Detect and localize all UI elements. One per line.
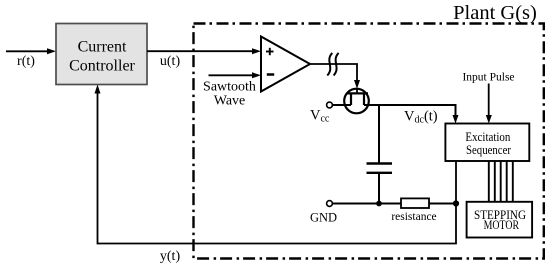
svg-text:Sequencer: Sequencer [466, 143, 512, 157]
wire input pulse arrow [488, 84, 490, 117]
svg-text:r(t): r(t) [17, 54, 35, 69]
wire comparator output [310, 64, 357, 81]
block Stepping Motor [467, 202, 532, 238]
svg-text:Sawtooth: Sawtooth [203, 80, 256, 95]
resistor R1 [401, 198, 429, 208]
wire u(t) to comparator [147, 50, 254, 52]
transistor Q1 (MOSFET in circle) [344, 89, 369, 114]
wire GND to resistor [333, 203, 402, 205]
block Current Controller [56, 24, 147, 85]
wire r(t) input [6, 50, 49, 52]
svg-text:Controller: Controller [69, 58, 135, 75]
wire sequencer bus line 1 [488, 161, 490, 202]
svg-text:Vcc: Vcc [310, 108, 330, 125]
wire sequencer bus line 3 [500, 161, 502, 202]
svg-text:Plant G(s): Plant G(s) [453, 2, 537, 24]
wire sequencer bus line 5 [512, 161, 514, 202]
svg-text:Vdc(t): Vdc(t) [404, 109, 438, 126]
svg-text:MOTOR: MOTOR [484, 217, 520, 232]
plant boundary (dash-dot box) [194, 24, 544, 259]
junction node dot [453, 200, 459, 206]
terminal Vcc [327, 102, 333, 108]
source lead [333, 104, 352, 106]
wire capacitor branch top [378, 105, 380, 163]
svg-text:u(t): u(t) [160, 54, 181, 69]
junction capacitor/GND wire [376, 201, 382, 207]
capacitor C1 [367, 162, 393, 164]
svg-text:resistance: resistance [391, 211, 436, 223]
svg-text:Excitation: Excitation [465, 130, 511, 144]
gate bar [347, 92, 369, 94]
svg-text:Current: Current [78, 39, 127, 56]
wire break symbol [327, 53, 332, 76]
wire sawtooth input [209, 74, 255, 76]
svg-text:Input Pulse: Input Pulse [462, 72, 514, 84]
plus input marker [266, 51, 274, 53]
wire capacitor branch bottom [378, 174, 380, 204]
right leg [363, 93, 365, 105]
op-amp comparator U1 [261, 37, 310, 92]
minus input marker [267, 73, 274, 76]
svg-text:y(t): y(t) [160, 249, 181, 264]
wire sequencer bus line 4 [506, 161, 508, 202]
block Excitation Sequencer [445, 124, 529, 162]
wire sequencer bus line 2 [494, 161, 496, 202]
svg-text:GND: GND [310, 211, 337, 225]
wire resistor to node [429, 203, 456, 205]
svg-text:Wave: Wave [214, 94, 246, 109]
terminal GND [327, 201, 333, 207]
wire feedback y(t) [98, 91, 457, 244]
drain lead / Vdc wire [364, 105, 456, 116]
gate lead [356, 89, 358, 94]
left leg [350, 93, 352, 105]
